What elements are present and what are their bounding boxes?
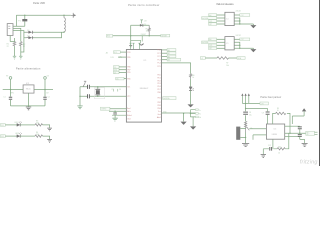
mem1 left flag1 [209,14,217,17]
svg-text:C9: C9 [262,112,264,114]
power flag VCC pin top2 [132,43,134,49]
junction bus1 [183,113,184,114]
wire D- row [33,32,62,38]
svg-text:F1: F1 [18,20,21,22]
net flag LED2 [0,135,5,138]
inductor L1 [64,15,65,32]
wire xtal2 [80,95,126,97]
svg-text:AVcc: AVcc [127,110,131,113]
svg-text:Adc6: Adc6 [157,116,161,119]
svg-text:24C32: 24C32 [236,35,241,37]
svg-text:10: 10 [277,110,279,112]
svg-text:LED2: LED2 [15,133,19,135]
ground speaker left [242,144,249,147]
power circle 5V right [44,77,47,80]
wire vout [34,89,53,91]
svg-text:Tx: Tx [199,110,201,112]
wire r6 led [190,79,192,87]
net flag left pin3 [114,66,120,69]
wire led1-r [20,124,35,126]
mem1 right flag [234,14,240,16]
junction L1 top [63,15,64,16]
svg-text:Gnd: Gnd [157,114,160,116]
stub C5 label [113,89,117,92]
resistor R3 [35,124,43,126]
crystal Q1 [97,87,99,97]
net flag XTAL label [100,107,110,110]
svg-text:Aref: Aref [127,107,131,110]
wire bottom right bus [162,112,197,114]
svg-text:D1: D1 [27,30,29,32]
svg-text:D6: D6 [116,79,118,81]
junction rail [28,105,29,106]
svg-text:PD5: PD5 [127,72,130,74]
svg-text:Rx: Rx [199,114,201,116]
net flag HP out [306,131,315,135]
svg-text:A1: A1 [168,52,170,55]
ground arrow led [188,104,194,107]
IC1 ATMEGA8 body [126,50,161,123]
svg-text:XT1: XT1 [127,87,130,89]
svg-text:A0: A0 [209,14,211,17]
svg-text:Gd: Gd [199,117,201,119]
power flag VCC pin top1 [130,43,132,49]
wire led chain [162,63,191,74]
junction L1 bottom [63,32,64,33]
svg-text:PC6: PC6 [127,52,130,54]
connector X1 USB [7,24,13,36]
pin names right red [157,50,161,120]
svg-text:9V: 9V [6,76,9,78]
svg-text:A0: A0 [168,49,170,52]
mem2 left flag1 [209,38,217,41]
svg-text:10k: 10k [226,65,229,67]
wire amp out1 [285,125,300,127]
IC4 24C32 #1 [225,12,234,25]
wire amp out3 [285,136,300,138]
IC5 24C32 #2 [225,37,234,50]
wire pot to gnd [245,133,247,144]
ground C5 [112,118,117,121]
regulator IC2 7805 [23,85,34,93]
power flag top crystal [83,81,86,87]
svg-text:PC5: PC5 [157,66,160,68]
svg-text:fritzing: fritzing [300,159,318,165]
svg-text:IC4: IC4 [226,19,229,21]
svg-text:HP-: HP- [306,134,309,136]
button S1 [131,40,141,43]
wire cap top link [246,108,268,110]
ground arrow bus2 [190,126,196,129]
wire snubber right up [285,133,289,149]
junction xtal2 left [79,96,80,97]
svg-text:10u: 10u [249,114,252,116]
pin names left red [127,52,131,121]
svg-text:PB0: PB0 [157,92,160,94]
svg-text:D13: D13 [111,57,114,59]
net flag right pin1 [167,49,176,52]
net flag left pin1 [114,51,121,54]
svg-text:PB6: PB6 [127,67,130,69]
svg-text:PC0: PC0 [157,50,160,52]
mem2 right flag [234,38,240,40]
svg-text:A0: A0 [209,38,211,41]
svg-text:PD2: PD2 [157,80,160,82]
power flag AVCC pin top3 [138,43,140,49]
svg-text:PC1: PC1 [157,53,160,55]
mem1 left flag2 [202,17,217,20]
capacitor C1 [10,90,12,106]
wire reset main [113,35,161,37]
svg-text:PD7: PD7 [157,89,160,91]
wire left pin2 [118,56,126,58]
resistor R7 [217,57,228,60]
svg-text:C8: C8 [249,112,251,114]
svg-text:PB3: PB3 [157,105,160,107]
svg-text:A4/SDA: A4/SDA [202,41,209,44]
svg-text:D3: D3 [144,24,146,26]
pullup row: net flag left [200,57,205,60]
wire D+ row [33,31,64,33]
net flag RST left [106,35,112,38]
capacitor C8 [243,112,248,114]
LED D5 [17,123,20,126]
svg-text:10: 10 [278,152,280,154]
mem2 left flag3 [209,44,217,47]
wire snubber [263,139,277,149]
resistor R6 [190,74,192,79]
svg-text:PC2: PC2 [157,56,160,58]
junction vout [44,89,45,90]
svg-text:A2: A2 [168,55,170,58]
svg-text:C1: C1 [3,97,5,99]
power circle 9V left [9,77,12,80]
svg-text:IC3: IC3 [274,128,277,130]
resistor R5 vertical [148,25,150,36]
frame right edge [319,0,320,166]
junction bus2 [190,113,191,114]
svg-text:Partie micro contrôleur: Partie micro contrôleur [128,3,159,7]
resistor R10 snubber [277,148,285,150]
svg-text:MEGA8-P: MEGA8-P [140,87,149,90]
capacitor C12 snubber [270,147,272,151]
ground arrow mem1 [250,25,256,28]
ground led1 [47,128,52,131]
net flag right pin2 [167,52,176,55]
svg-text:PC3: PC3 [157,60,160,62]
wire led2-r [20,135,35,137]
wire top VBUS rail [16,14,70,16]
LED D4 [189,87,192,90]
net flag SDA [163,97,176,100]
net flag RESET right [161,34,170,37]
ground led2 [47,140,52,143]
svg-text:PD0: PD0 [157,75,160,77]
svg-text:IC1: IC1 [144,60,147,62]
svg-text:+5V: +5V [144,20,148,22]
svg-text:Gnd: Gnd [127,119,130,121]
svg-text:PB5: PB5 [127,57,130,59]
wire led gnd [190,90,192,104]
junction fuse top [24,15,25,16]
wire led2 [5,135,17,137]
svg-text:PB2: PB2 [157,102,160,104]
net flag LED1 [0,124,5,127]
potentiometer R8 [245,121,247,132]
IC3 LM386 body [266,124,284,139]
svg-text:16MHz: 16MHz [101,109,107,111]
wire pin2 down [13,28,21,41]
LED D6 [17,135,20,138]
ground reset [129,46,132,47]
wire left rail crystal [79,87,81,106]
net flag right pin3 [167,55,176,58]
svg-text:Partie alimentation: Partie alimentation [16,67,41,71]
wire bottom rail [11,105,46,107]
diode D2 [27,36,34,39]
wire speaker top bar [242,102,260,104]
svg-text:24C32: 24C32 [236,11,241,13]
wire r3 gnd [43,125,50,128]
svg-text:Partie mémoire externe: Partie mémoire externe [216,3,234,6]
mem1 left flag4 [209,23,217,26]
svg-text:C12: C12 [268,145,271,147]
wire aref [110,108,127,110]
svg-text:A4/SDA: A4/SDA [163,97,170,100]
svg-text:Partie USB: Partie USB [33,1,45,5]
capacitor C5 [113,113,117,115]
junction reset right [149,35,150,36]
jack J1 [236,127,240,140]
net flag left pin4 [114,68,120,71]
capacitor C10 [298,127,302,129]
svg-text:C3: C3 [111,89,113,91]
wire reg gnd [28,93,30,106]
svg-text:D2: D2 [27,36,29,38]
wire pin1 to top [13,15,16,26]
wire reset left vert [130,25,132,36]
svg-text:+5: +5 [201,58,203,60]
power flags speaker top [241,93,243,96]
mem2 gnd bus [234,42,253,49]
svg-text:RST: RST [107,36,110,38]
svg-text:AGnd: AGnd [127,114,131,117]
wire gnd stub1 [183,113,185,121]
svg-text:PD1: PD1 [157,77,160,79]
ground snubber [261,155,266,158]
wire in2 to amp [253,135,266,140]
svg-text:Vcc: Vcc [158,111,161,113]
capacitor C9 input [267,109,269,125]
net flag pullup right [237,57,245,60]
svg-text:PD4: PD4 [157,86,160,88]
svg-text:R10: R10 [278,146,281,148]
svg-text:A4/SDA: A4/SDA [202,17,209,20]
ground usb right [19,56,22,59]
resistor R4 [35,135,43,137]
svg-text:5V: 5V [46,93,49,95]
resistor R1 [13,42,16,47]
wire amp out main [285,132,306,134]
connector SV1 stubs [190,110,195,117]
wire wiper to amp [249,128,266,130]
power flag +5V reset [140,20,143,24]
ground arrow bus1 [181,122,187,125]
wire vin [3,89,23,91]
capacitor C4 [88,94,90,98]
wire r4 gnd [43,136,50,139]
svg-text:PD3: PD3 [157,83,160,85]
resistor R9 feedback [273,113,276,124]
wire avcc [109,110,126,112]
junction reset left [130,35,131,36]
svg-text:D5: D5 [114,72,116,74]
crystal Q1 outline [94,88,104,99]
svg-text:PB4: PB4 [157,108,160,110]
wire third down [21,38,24,52]
diode D3 [142,24,144,27]
mem2 left flag2 [202,41,217,44]
wire left pin1 [120,51,126,53]
capacitor C11 [298,135,302,137]
svg-text:330: 330 [36,123,39,125]
mem1 gnd bus [234,18,253,25]
wire snubber left gnd [262,149,264,155]
net flag right pin4 [167,58,181,61]
ground arrow mem2 [250,49,256,52]
junction vin [10,89,11,90]
svg-text:C4: C4 [119,89,121,91]
net flag left pin6 [116,77,124,80]
wire volume column [245,103,247,121]
svg-text:SCL: SCL [114,52,117,54]
svg-text:D12: D12 [1,136,4,138]
svg-text:LED1: LED1 [14,122,18,124]
wire pullup right [229,57,238,59]
svg-text:RESET: RESET [161,36,167,38]
wire gnd stub2 [192,117,194,126]
svg-text:A3: A3 [168,59,170,62]
capacitor C3 [88,85,90,89]
power arrow VCC amp [302,108,306,111]
wire button stub [130,36,132,46]
svg-text:Partie haut parleur: Partie haut parleur [260,96,281,99]
svg-text:VIN: VIN [10,93,14,95]
svg-text:330: 330 [36,134,39,136]
svg-text:PB1: PB1 [157,97,160,99]
svg-text:PB7: PB7 [127,69,130,71]
svg-text:XT2: XT2 [127,96,130,98]
svg-text:R9: R9 [277,108,279,110]
svg-text:1k: 1k [192,77,194,79]
ground usb left [13,56,16,59]
fuse F1 [16,15,24,26]
svg-text:C2: C2 [48,97,50,99]
svg-text:PC4: PC4 [157,63,160,65]
power flag +5V right [71,13,73,18]
svg-text:HP+: HP+ [306,132,309,134]
svg-text:10k: 10k [146,31,149,33]
capacitor C2 [44,90,46,106]
ground amp right [300,139,305,143]
svg-text:RESET: RESET [141,34,146,36]
svg-text:IC5: IC5 [226,43,229,45]
svg-text:22: 22 [7,46,9,48]
net flag speaker vcc [260,102,268,105]
ground alim [26,107,31,110]
diode D1 [27,31,34,34]
wire led1 [5,124,17,126]
ground crystal [77,106,82,109]
svg-text:D11: D11 [1,125,4,127]
svg-text:5V: 5V [47,76,50,78]
net flag left pin5 [114,71,120,74]
resistor R2 [19,42,22,47]
wire pin3 down [13,31,27,38]
crystal circuit: wire xtal1 [80,86,126,88]
svg-text:78L05: 78L05 [26,89,31,91]
wire pullup left [205,57,217,59]
mem2 left flag4 [209,47,217,50]
svg-text:PD6: PD6 [127,78,130,80]
svg-text:A5: A5 [106,51,108,54]
wire reset top rail [131,24,150,26]
wire shield down [10,36,14,42]
mem1 left flag3 [209,20,217,23]
svg-text:LM386: LM386 [272,134,277,136]
wire agnd [112,114,126,116]
wire rst stub [141,36,143,42]
